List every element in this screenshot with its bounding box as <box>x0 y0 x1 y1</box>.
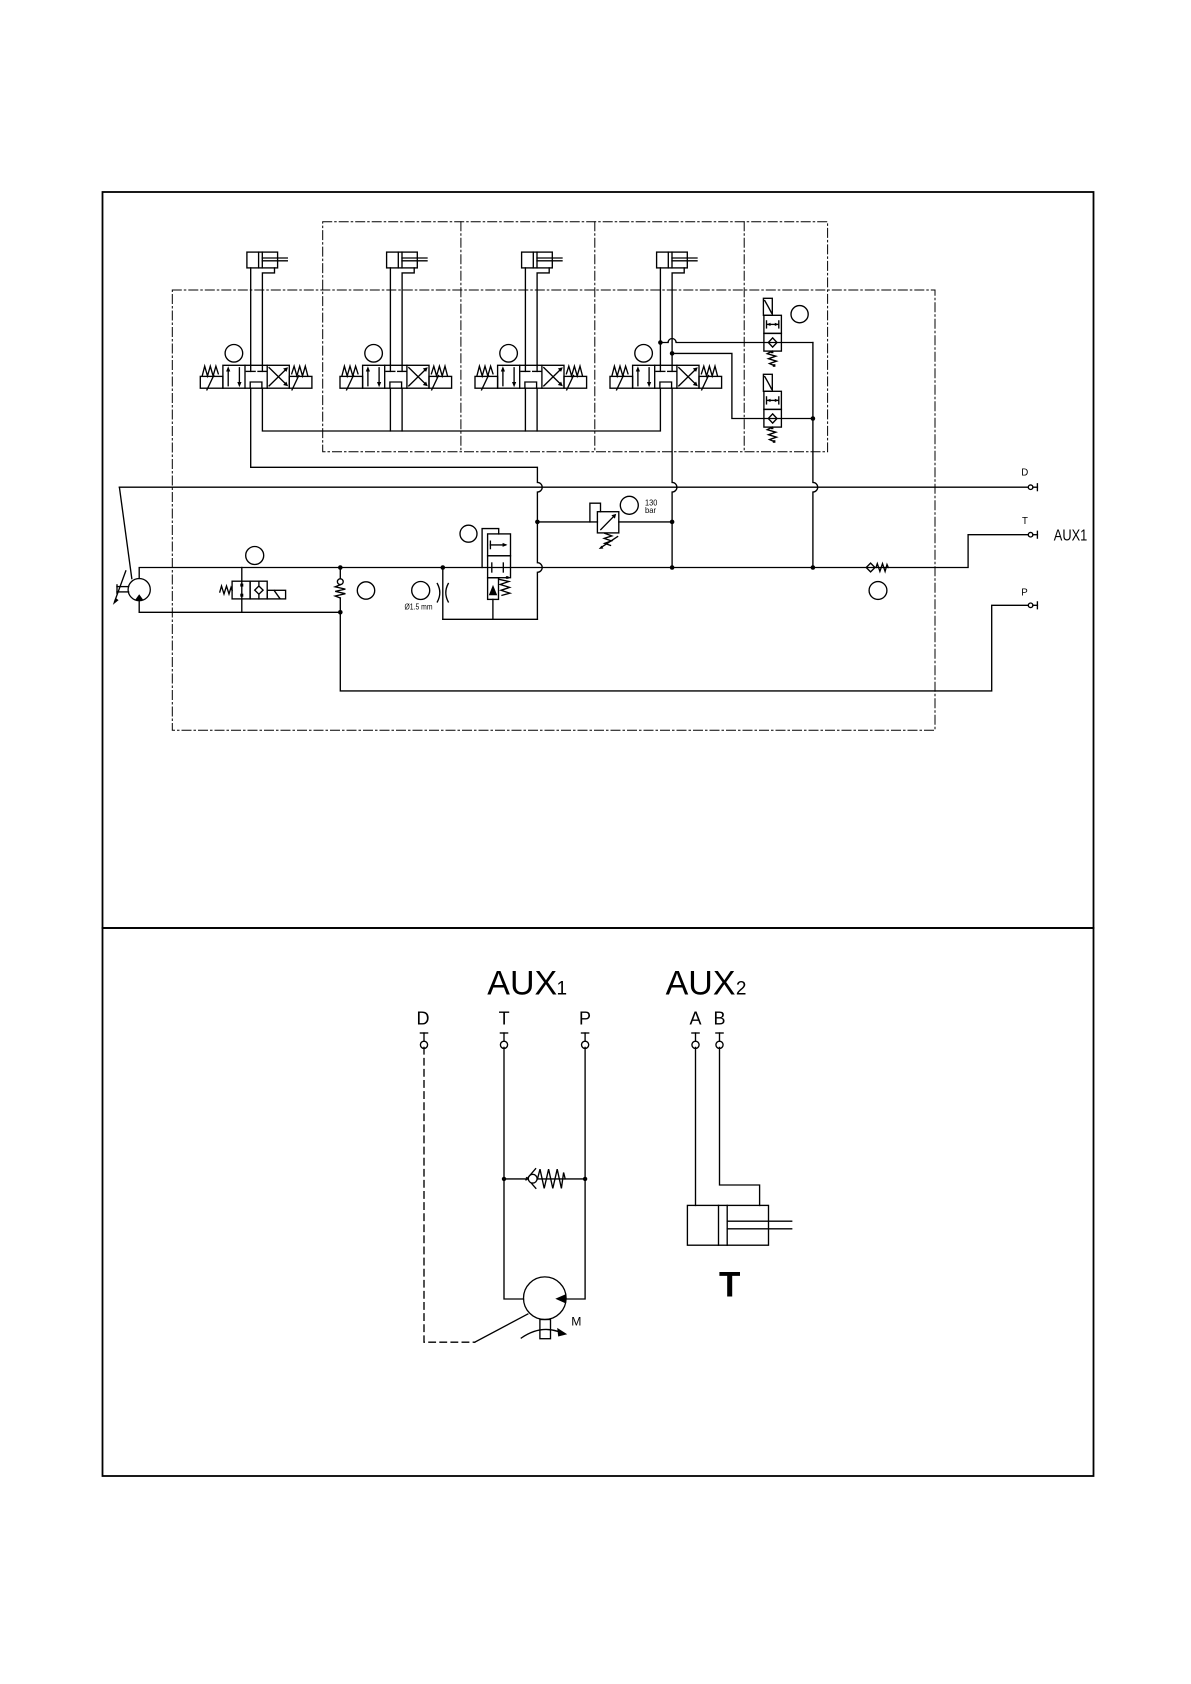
node: V4 riser to supply <box>670 565 675 570</box>
wire: A line to cylinder <box>695 1047 697 1205</box>
gauge circle at relief valve <box>620 496 638 514</box>
valve: lower 2/2 cartridge <box>763 374 781 443</box>
pump: variable displacement <box>128 579 150 601</box>
wire: V2 tank stubs <box>390 388 402 431</box>
wire: tap from V4 A-line to upper cartridge valve <box>660 339 813 343</box>
enclosure: valve sections box (dash-dot) <box>323 222 828 452</box>
port D (top) <box>1028 484 1037 491</box>
node: orifice branch tap <box>441 565 446 570</box>
enclosure: main valve block (dash-dot) <box>172 290 935 730</box>
node: relief line left tap <box>535 520 540 525</box>
check valve with spring on link <box>526 1169 565 1189</box>
node: cartridge riser junction <box>811 416 816 421</box>
valve V2 (4/3 proportional) <box>340 345 452 390</box>
node: check valve top <box>338 565 343 570</box>
svg-text:2: 2 <box>736 979 747 1000</box>
wire: orifice branch <box>442 568 444 620</box>
svg-text:T: T <box>719 1265 740 1304</box>
valve V3 (4/3 proportional) <box>475 345 587 390</box>
node: check valve bottom <box>338 610 343 615</box>
wire: LS diagonal to pump control <box>119 487 131 578</box>
svg-text:B: B <box>714 1009 726 1029</box>
wire: LS/drain line to port D <box>119 486 1028 488</box>
AUX2 cylinder <box>687 1205 791 1245</box>
node: V4 B-line tap <box>670 351 675 356</box>
svg-text:AUX: AUX <box>487 965 557 1003</box>
wire: tank gallery below valves <box>262 388 660 431</box>
page frame: lower sheet border <box>103 928 1094 1476</box>
svg-text:D: D <box>1021 468 1028 479</box>
wire: suction/return line to port P <box>340 605 1028 691</box>
port A <box>692 1033 699 1048</box>
check valve on pump branch <box>335 568 345 613</box>
node: P link <box>583 1177 587 1181</box>
check valve to tank port <box>866 563 888 572</box>
svg-text:P: P <box>1021 587 1027 598</box>
motor rotation arrow <box>521 1329 557 1338</box>
wire: V1 pressure feed down to compensator gallery <box>251 388 543 619</box>
wire: tap from V4 B-line to lower cartridge valve <box>672 353 813 418</box>
svg-text:Ø1.5 mm: Ø1.5 mm <box>405 602 433 611</box>
svg-text:T: T <box>499 1009 510 1029</box>
svg-text:1: 1 <box>557 979 568 1000</box>
node: relief line right junction <box>670 520 675 525</box>
gauge circle at upper cartridge <box>791 306 808 323</box>
gauge circle above bypass valve <box>246 547 264 565</box>
svg-text:D: D <box>417 1009 430 1029</box>
motor shaft <box>540 1320 551 1339</box>
valve: upper 2/2 cartridge <box>763 298 781 367</box>
enclosure: section divider 3 <box>743 222 745 452</box>
valve V4 (4/3 proportional) <box>610 345 722 390</box>
svg-text:AUX: AUX <box>666 965 736 1003</box>
enclosure: section divider 2 <box>594 222 596 452</box>
motor <box>524 1277 567 1320</box>
orifice restriction symbol <box>437 584 448 602</box>
svg-text:bar: bar <box>645 505 656 515</box>
wire: drain diagonal to motor <box>475 1314 528 1342</box>
port P (lower) <box>582 1033 589 1048</box>
gauge circle left of orifice <box>357 582 374 599</box>
gauge circle below tank check <box>869 582 887 600</box>
svg-text:T: T <box>1022 516 1028 527</box>
node: V4 A-line tap <box>658 340 663 345</box>
node: T link <box>502 1177 506 1181</box>
wire: compensator pilot <box>482 529 499 568</box>
valve V1 (4/3 proportional) <box>200 345 312 390</box>
wire: relief link T-P <box>504 1178 585 1180</box>
wire: drain dashed line <box>424 1047 475 1342</box>
gauge circle at orifice <box>412 582 430 600</box>
port T (lower) <box>500 1033 507 1048</box>
wire: compensator drain footer <box>443 618 538 620</box>
wire: relief pilot line <box>537 521 672 523</box>
node: cartridge riser to supply <box>811 565 816 570</box>
wire: cartridge outlet riser <box>813 343 818 568</box>
gauge circle at compensator <box>460 525 477 542</box>
svg-text:A: A <box>690 1009 702 1029</box>
cylinder 2 <box>387 252 427 365</box>
wire: T line to motor <box>504 1047 524 1299</box>
page frame: upper sheet border <box>103 192 1094 928</box>
wire: pump bottom line <box>139 601 340 613</box>
wire: V3 tank stubs <box>525 388 537 431</box>
port B <box>716 1033 723 1048</box>
svg-text:M: M <box>571 1314 581 1328</box>
wire: P line to motor <box>566 1047 585 1299</box>
compensator valve <box>488 534 511 619</box>
cylinder 3 <box>522 252 562 365</box>
enclosure: section divider 1 <box>460 222 462 452</box>
svg-text:AUX1: AUX1 <box>1054 528 1088 545</box>
cylinder 1 <box>247 252 287 365</box>
wire: pump outlet / main supply line to port T <box>139 535 1028 579</box>
wire: V4 pressure riser <box>672 388 677 567</box>
relief valve 130 bar <box>590 503 619 549</box>
svg-text:P: P <box>579 1009 591 1029</box>
port P (top) <box>1028 602 1037 609</box>
wire: B line to cylinder <box>720 1047 760 1205</box>
port D (lower) <box>420 1033 427 1048</box>
cylinder 4 <box>657 252 697 365</box>
port T (top) <box>1028 531 1037 538</box>
valve: solenoid bypass 2/2 <box>220 568 286 613</box>
